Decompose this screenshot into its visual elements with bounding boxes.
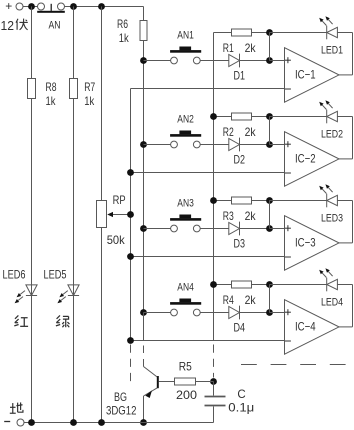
- wire minus input of IC-1: [131, 88, 285, 90]
- svg-text:RP: RP: [113, 193, 126, 207]
- wire R1 to node 1: [252, 32, 270, 34]
- junction ref rail / RP wiper: [127, 211, 134, 218]
- wire rail to R2: [214, 116, 232, 118]
- junction node 3 lower: [266, 225, 273, 232]
- transistor BG 3DG12: [144, 367, 159, 423]
- junction node 4 lower: [266, 309, 273, 316]
- junction ref rail / IC-3 minus: [127, 253, 134, 260]
- svg-text:LED3: LED3: [321, 213, 343, 225]
- junction feed rail / AN1: [140, 57, 147, 64]
- svg-text:LED6: LED6: [3, 270, 26, 282]
- pushbutton AN3: [170, 215, 201, 232]
- wire IC-3 output to LED3: [337, 201, 352, 243]
- svg-text:D1: D1: [234, 69, 246, 83]
- resistor R4 2k: [232, 281, 252, 288]
- wire node 1 to + input of IC-1: [270, 60, 285, 62]
- wire node 1 to LED1: [270, 32, 327, 34]
- resistor R7 1k: [70, 7, 78, 423]
- LED2: [327, 110, 338, 124]
- junction node 1 lower: [266, 57, 273, 64]
- op-amp IC-2: [285, 132, 340, 187]
- svg-text:AN: AN: [49, 20, 61, 32]
- wire rail to R1: [214, 32, 232, 34]
- wire minus input of IC-4: [131, 340, 285, 342]
- junction top rail / R8: [28, 3, 35, 10]
- junction node 2 upper: [266, 113, 273, 120]
- svg-text:50k: 50k: [107, 233, 126, 247]
- junction feed rail / AN4: [140, 309, 147, 316]
- wire IC-4 output to LED4: [337, 285, 352, 327]
- junction common rail / R3: [210, 197, 217, 204]
- svg-text:1k: 1k: [119, 31, 130, 45]
- label R1 2k: [223, 41, 257, 55]
- wire minus reference rail: [130, 89, 132, 341]
- junction top rail / RP column: [98, 3, 105, 10]
- wire base to R5: [159, 381, 174, 383]
- junction node 1 upper: [266, 29, 273, 36]
- svg-text:LED4: LED4: [321, 297, 343, 309]
- label R3 2k: [223, 209, 257, 223]
- svg-text:LED2: LED2: [321, 129, 343, 141]
- svg-text:3DG12: 3DG12: [106, 403, 137, 417]
- LED5 (green indicator): [68, 285, 79, 296]
- LED5 light arrows: [57, 291, 67, 304]
- svg-text:1k: 1k: [46, 94, 57, 108]
- junction ref rail / IC-4 minus: [127, 337, 134, 344]
- svg-text:R7: R7: [84, 80, 95, 94]
- wire +12V top rail: [23, 6, 144, 8]
- label BG 3DG12: [106, 390, 137, 417]
- wire D3 to node 3: [240, 228, 270, 230]
- svg-text:LED5: LED5: [44, 270, 67, 282]
- RP wiper arrow: [107, 212, 130, 217]
- wire R4 to node 4: [252, 284, 270, 286]
- wire D2 to node 2: [240, 144, 270, 146]
- label 绿: [56, 315, 70, 327]
- svg-text:12: 12: [1, 18, 15, 33]
- svg-text:2k: 2k: [245, 293, 257, 307]
- wire feed to AN2: [144, 144, 171, 146]
- svg-text:2k: 2k: [245, 125, 257, 139]
- junction node 2 lower: [266, 141, 273, 148]
- LED3 light arrows: [319, 184, 332, 193]
- label 12伏: [1, 18, 28, 33]
- svg-text:D3: D3: [234, 237, 246, 251]
- svg-text:IC−1: IC−1: [295, 67, 316, 81]
- dashed wire (continuation ellipsis): [241, 364, 354, 366]
- junction R5 / C: [210, 378, 217, 385]
- LED6 (red indicator): [26, 285, 37, 296]
- junction top rail / R7: [70, 3, 77, 10]
- wire feed to AN4: [144, 312, 171, 314]
- svg-text:+: +: [5, 0, 12, 13]
- svg-text:R4: R4: [223, 293, 234, 307]
- LED4 light arrows: [319, 268, 332, 277]
- svg-text:AN4: AN4: [177, 281, 194, 293]
- wire minus input of IC-3: [131, 256, 285, 258]
- wire IC-1 output to LED1: [337, 33, 352, 75]
- junction common rail / R2: [210, 113, 217, 120]
- pushbutton AN1: [170, 47, 201, 64]
- svg-text:IC−3: IC−3: [295, 235, 316, 249]
- svg-text:1k: 1k: [84, 94, 95, 108]
- wire rail to R4: [214, 284, 232, 286]
- svg-text:BG: BG: [114, 390, 127, 404]
- wire node 4 vertical: [269, 285, 271, 313]
- wire node 2 to + input of IC-2: [270, 144, 285, 146]
- junction node 3 upper: [266, 197, 273, 204]
- wire AN2 to D2: [200, 144, 229, 146]
- junction ref rail / IC-2 minus: [127, 169, 134, 176]
- wire feed to AN1: [144, 60, 171, 62]
- label R8 1k: [46, 80, 57, 108]
- svg-text:200: 200: [176, 388, 197, 402]
- wire AN4 to D4: [200, 312, 229, 314]
- svg-text:2k: 2k: [245, 41, 257, 55]
- junction feed rail / AN2: [140, 141, 147, 148]
- svg-text:R5: R5: [179, 359, 192, 373]
- op-amp IC-4: [285, 300, 340, 355]
- svg-text:R3: R3: [223, 209, 234, 223]
- pushbutton AN2: [170, 131, 201, 148]
- LED1: [327, 26, 338, 40]
- LED6 light arrows: [15, 291, 25, 304]
- svg-text:IC−2: IC−2: [295, 151, 316, 165]
- svg-text:2k: 2k: [245, 209, 257, 223]
- wire node 4 to + input of IC-4: [270, 312, 285, 314]
- resistor R2 2k: [232, 113, 252, 120]
- ground terminal: [4, 419, 24, 426]
- wire R3 to node 3: [252, 200, 270, 202]
- LED2 light arrows: [319, 100, 332, 109]
- label 红: [14, 315, 28, 326]
- wire node 1 vertical: [269, 33, 271, 61]
- junction ground / LED5 column: [70, 419, 77, 426]
- dashed wire ref rail continuation: [130, 345, 132, 385]
- diode D3: [229, 222, 240, 236]
- wire node 2 vertical: [269, 117, 271, 145]
- op-amp IC-1: [285, 48, 340, 102]
- svg-text:C: C: [237, 389, 245, 401]
- wire ground rail: [24, 422, 214, 424]
- svg-text:LED1: LED1: [321, 45, 343, 57]
- wire common rail: [213, 33, 215, 341]
- wire node 3 to + input of IC-3: [270, 228, 285, 230]
- resistor R6 1k: [140, 7, 147, 313]
- svg-text:AN2: AN2: [177, 113, 194, 125]
- wire node 2 to LED2: [270, 116, 327, 118]
- label R4 2k: [223, 293, 257, 307]
- wire minus input of IC-2: [131, 172, 285, 174]
- diode D2: [229, 138, 240, 152]
- switch AN (power pushbutton): [37, 3, 65, 13]
- svg-text:D4: D4: [234, 321, 246, 335]
- LED3: [327, 194, 338, 208]
- junction common rail / R4: [210, 281, 217, 288]
- svg-text:AN3: AN3: [177, 197, 194, 209]
- junction feed rail / AN3: [140, 225, 147, 232]
- wire rail to R3: [214, 200, 232, 202]
- svg-text:R1: R1: [223, 41, 234, 55]
- junction node 4 upper: [266, 281, 273, 288]
- resistor R5 200: [175, 378, 196, 385]
- wire node 3 vertical: [269, 201, 271, 229]
- wire feed to AN3: [144, 228, 171, 230]
- diode D1: [229, 54, 240, 68]
- resistor R8 1k: [28, 7, 36, 423]
- junction ground / LED6 column: [28, 419, 35, 426]
- resistor R3 2k: [232, 197, 252, 204]
- resistor R1 2k: [232, 29, 252, 36]
- svg-text:D2: D2: [234, 153, 246, 167]
- LED1 light arrows: [319, 16, 332, 25]
- wire node 4 to LED4: [270, 284, 327, 286]
- svg-text:R6: R6: [117, 17, 128, 31]
- pushbutton AN4: [170, 299, 201, 316]
- wire D4 to node 4: [240, 312, 270, 314]
- power terminal +12V: [5, 0, 23, 13]
- dashed wire common rail to R5/C: [213, 345, 215, 378]
- potentiometer RP 50k: [97, 7, 107, 423]
- label R7 1k: [84, 80, 95, 108]
- label 地: [10, 402, 23, 413]
- dashed wire feed rail to collector: [143, 313, 145, 341]
- svg-text:0.1μ: 0.1μ: [228, 401, 254, 415]
- label R6 1k: [117, 17, 129, 45]
- wire R5 to junction: [196, 381, 214, 383]
- svg-text:IC−4: IC−4: [295, 319, 316, 333]
- wire AN1 to D1: [200, 60, 229, 62]
- svg-text:R8: R8: [46, 80, 57, 94]
- junction emitter / ground rail: [140, 419, 147, 426]
- wire IC-2 output to LED2: [337, 117, 352, 159]
- wire R2 to node 2: [252, 116, 270, 118]
- label R2 2k: [223, 125, 257, 139]
- diode D4: [229, 306, 240, 320]
- op-amp IC-3: [285, 216, 340, 271]
- junction ground / RP column: [98, 419, 105, 426]
- wire D1 to node 1: [240, 60, 270, 62]
- LED4: [327, 278, 338, 292]
- wire node 3 to LED3: [270, 200, 327, 202]
- capacitor C 0.1u: [205, 382, 226, 423]
- svg-text:AN1: AN1: [177, 29, 194, 41]
- wire AN3 to D3: [200, 228, 229, 230]
- svg-text:R2: R2: [223, 125, 234, 139]
